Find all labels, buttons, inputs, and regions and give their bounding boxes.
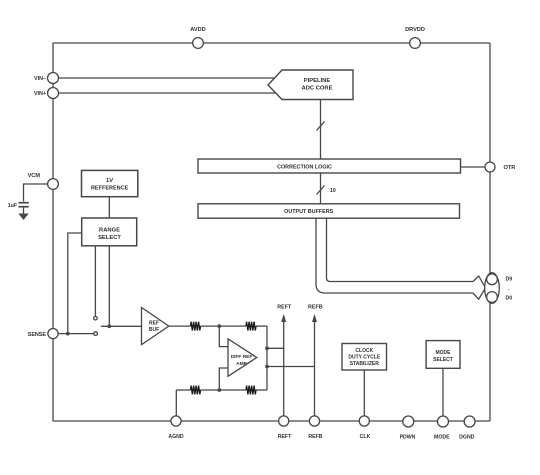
pin VIN- <box>34 73 58 84</box>
svg-text:ADC CORE: ADC CORE <box>302 86 333 92</box>
wire: bottom rail <box>176 389 267 391</box>
pin OTR <box>485 162 515 172</box>
wire: REFT rail <box>283 321 285 416</box>
wire: range select to ref buf input node <box>108 246 110 326</box>
svg-text:REFB: REFB <box>308 434 322 440</box>
svg-text:AMP: AMP <box>236 361 247 367</box>
svg-text:RANGE: RANGE <box>99 228 120 234</box>
svg-text:SENSE: SENSE <box>28 332 47 338</box>
wire: node B to REFT rail <box>267 347 284 349</box>
svg-text:D0: D0 <box>506 296 513 302</box>
clock duty cycle stabilizer U8 <box>342 344 387 371</box>
wire: VIN+ input to pipeline notch <box>59 92 276 94</box>
svg-text:REFT: REFT <box>278 434 292 440</box>
1V reference U4 <box>82 170 138 196</box>
switch S1 lower contact <box>94 332 98 336</box>
correction logic U2 <box>198 159 461 173</box>
svg-text:CLOCK: CLOCK <box>355 348 373 354</box>
wire: range select left to sense node <box>68 233 82 334</box>
node B <box>265 346 269 350</box>
wire: correction logic to OTR pin <box>461 166 486 168</box>
svg-text:DUTY CYCLE: DUTY CYCLE <box>348 354 381 360</box>
node: ref buf input junction <box>107 324 111 328</box>
svg-text:VIN–: VIN– <box>34 76 46 82</box>
svg-text:VIN+: VIN+ <box>34 91 46 97</box>
range select U5 <box>82 218 137 246</box>
svg-text:PIPELINE: PIPELINE <box>304 78 331 84</box>
op-amp U7 DIFF REF AMP <box>228 339 257 377</box>
wire: bottom rail down to AGND <box>175 390 177 416</box>
svg-text:REFFERENCE: REFFERENCE <box>91 186 129 192</box>
wire: VIN- input to pipeline notch <box>59 77 276 79</box>
svg-text:OUTPUT BUFFERS: OUTPUT BUFFERS <box>284 209 334 215</box>
svg-text:AVDD: AVDD <box>190 27 205 33</box>
resistor R2 <box>246 322 256 331</box>
node D9-D0 output connector <box>485 273 513 304</box>
wire: pipeline core to correction logic bus <box>320 100 322 160</box>
wire: capacitor to ground <box>23 207 25 214</box>
svg-text:CLK: CLK <box>360 434 371 440</box>
wire: clock box to CLK pin <box>363 370 365 416</box>
op-amp U6 REF BUF <box>142 308 169 345</box>
wire: output data bus outline to D9-D0 <box>316 218 486 299</box>
svg-text:DGND: DGND <box>459 435 475 441</box>
svg-text:1uF: 1uF <box>8 203 17 209</box>
svg-text:SELECT: SELECT <box>98 235 121 241</box>
resistor R4 <box>246 386 256 395</box>
pin PDWN <box>400 416 416 441</box>
op-amp U1 PIPELINE ADC CORE <box>268 70 353 100</box>
wire: range select to switch upper contact <box>94 246 96 316</box>
wire: mode select to MODE pin <box>442 368 444 416</box>
resistor R1 <box>191 322 201 331</box>
wire: outer border bottom <box>53 420 490 422</box>
node: REFB arrowhead <box>312 314 317 322</box>
wire: diff amp plus input <box>219 326 228 347</box>
node D <box>217 388 221 392</box>
svg-text:BUF: BUF <box>149 327 159 333</box>
svg-text:DRVDD: DRVDD <box>405 27 425 33</box>
svg-text:D9: D9 <box>506 277 513 283</box>
wire: correction logic to output buffers bus <box>320 173 322 204</box>
wire: VCM to decoupling capacitor <box>24 184 48 202</box>
node C <box>265 365 269 369</box>
svg-text:REF: REF <box>149 321 159 327</box>
wire: switch to ref buf input <box>101 325 142 327</box>
pin VCM <box>28 173 59 189</box>
wire: sense to switch <box>58 333 93 335</box>
pin MODE <box>434 416 450 441</box>
wire: REFB rail <box>314 321 316 416</box>
svg-text:AGND: AGND <box>168 434 184 440</box>
svg-text:10: 10 <box>330 188 336 194</box>
svg-text:REFB: REFB <box>308 305 323 311</box>
wire: ref buf output top rail <box>169 325 267 327</box>
pin REFT <box>278 416 292 440</box>
wire: node C to REFB rail <box>267 366 315 368</box>
svg-text:PDWN: PDWN <box>400 435 416 441</box>
capacitor C1 1uF <box>19 203 29 207</box>
bus slash <box>317 122 325 131</box>
wire: 1V reference to range select <box>108 197 110 218</box>
svg-text:MODE: MODE <box>436 350 452 356</box>
pin AGND <box>168 416 184 440</box>
ground <box>18 214 28 221</box>
wire: outer border right <box>489 43 491 421</box>
pin DGND <box>459 416 475 441</box>
output buffers U3 <box>198 204 460 218</box>
wire: outer border left <box>52 43 54 421</box>
pin AVDD <box>190 27 205 48</box>
svg-text:SELECT: SELECT <box>433 357 453 363</box>
pin SENSE <box>28 329 58 339</box>
bus slash 10 <box>317 186 336 195</box>
svg-text:REFT: REFT <box>277 305 292 311</box>
pin REFB <box>308 416 322 440</box>
node: REFT arrowhead <box>281 314 286 322</box>
svg-text:MODE: MODE <box>434 435 450 441</box>
switch S1 upper contact <box>94 316 98 320</box>
svg-text:CORRECTION LOGIC: CORRECTION LOGIC <box>277 165 332 171</box>
svg-text:STABILIZER: STABILIZER <box>350 361 379 367</box>
svg-text:1V: 1V <box>106 178 113 184</box>
pin VIN+ <box>34 88 59 99</box>
node: sense junction <box>66 332 70 336</box>
node A <box>217 324 221 328</box>
svg-text:VCM: VCM <box>28 173 41 179</box>
wire: outer border top <box>53 42 490 44</box>
wire: right vertical rail <box>266 326 268 390</box>
wire: diff amp minus input <box>219 368 228 390</box>
pin CLK <box>359 416 370 440</box>
resistor R3 <box>191 386 201 395</box>
svg-text:DIFF REF: DIFF REF <box>231 354 253 360</box>
mode select U9 <box>426 341 460 369</box>
svg-text:OTR: OTR <box>504 165 516 171</box>
pin DRVDD <box>405 27 425 48</box>
